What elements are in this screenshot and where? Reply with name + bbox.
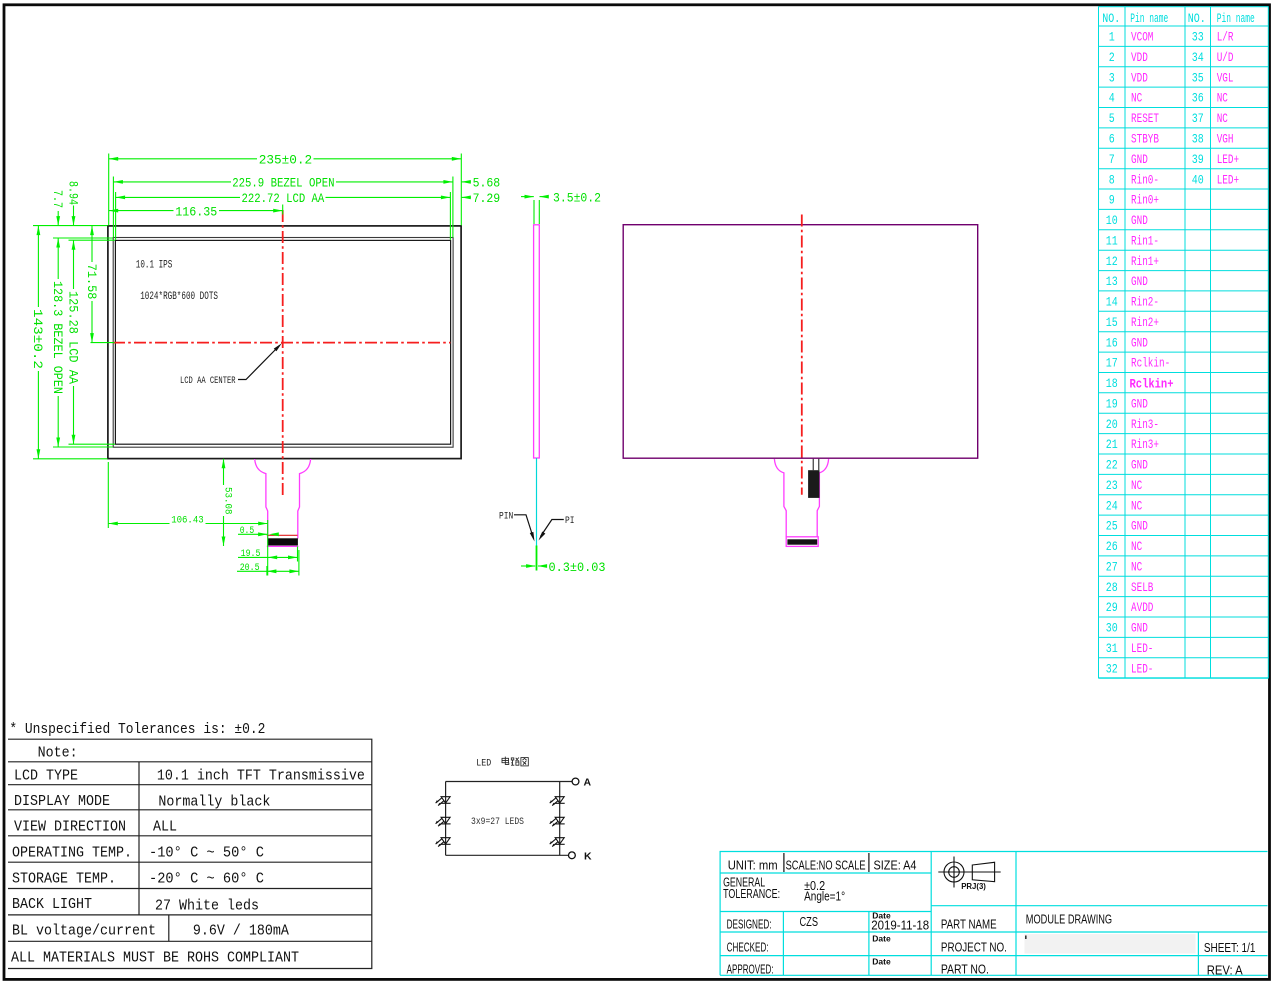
dim 19.5	[238, 556, 268, 558]
dim line 53.08	[223, 459, 225, 485]
connector stub lines	[812, 459, 814, 470]
LCD AA outline	[115, 240, 450, 444]
svg-text:NC: NC	[1131, 92, 1142, 106]
svg-text:LED: LED	[476, 758, 491, 770]
dim line 143±0.2	[37, 226, 39, 307]
svg-text:GND: GND	[1131, 336, 1148, 350]
dim line 222.72	[116, 196, 240, 198]
svg-text:4: 4	[1109, 92, 1115, 106]
CJK 图	[521, 758, 528, 766]
LED D2	[436, 817, 451, 826]
svg-text:PIN: PIN	[499, 510, 513, 522]
svg-text:2019-11-18: 2019-11-18	[871, 919, 929, 933]
svg-text:MODULE DRAWING: MODULE DRAWING	[1026, 913, 1112, 927]
svg-text:NO.: NO.	[1188, 12, 1206, 26]
LED D6	[550, 838, 565, 847]
svg-text:GND: GND	[1131, 622, 1148, 636]
connector black bar (front)	[268, 538, 298, 545]
ext lines top	[108, 154, 110, 226]
back outline	[623, 225, 978, 459]
svg-text:Rin0+: Rin0+	[1131, 194, 1159, 208]
dim 0.3±0.03	[521, 546, 547, 571]
svg-text:27: 27	[1106, 561, 1118, 575]
leader PIN	[514, 515, 533, 538]
svg-text:LED+: LED+	[1217, 153, 1239, 167]
Date small labels	[872, 911, 891, 967]
svg-text:0.5: 0.5	[240, 525, 255, 537]
svg-text:K: K	[584, 851, 592, 863]
dim line 116.35	[109, 210, 174, 212]
svg-text:37: 37	[1192, 112, 1204, 126]
svg-text:LCD TYPE: LCD TYPE	[14, 769, 78, 785]
dim line 71.58	[91, 226, 93, 262]
svg-text:NC: NC	[1217, 112, 1228, 126]
svg-text:225.9 BEZEL OPEN: 225.9 BEZEL OPEN	[232, 176, 334, 191]
svg-text:106.43: 106.43	[171, 515, 204, 527]
svg-text:PROJECT NO.: PROJECT NO.	[941, 941, 1007, 955]
LED D5	[550, 817, 565, 826]
svg-text:BL voltage/current: BL voltage/current	[12, 924, 156, 940]
svg-text:28: 28	[1106, 581, 1118, 595]
svg-text:29: 29	[1106, 601, 1118, 615]
svg-text:PI: PI	[565, 515, 575, 527]
svg-text:ALL MATERIALS MUST BE ROHS COM: ALL MATERIALS MUST BE ROHS COMPLIANT	[11, 951, 299, 967]
svg-text:3: 3	[1109, 71, 1115, 85]
svg-text:Rin2+: Rin2+	[1131, 316, 1159, 330]
svg-text:1: 1	[1109, 31, 1115, 45]
svg-text:LED-: LED-	[1131, 662, 1153, 676]
svg-text:21: 21	[1106, 438, 1118, 452]
svg-text:34: 34	[1192, 51, 1204, 65]
svg-text:22: 22	[1106, 459, 1118, 473]
svg-text:Date: Date	[872, 957, 891, 967]
back FPC tail	[774, 459, 828, 546]
svg-text:9.6V / 180mA: 9.6V / 180mA	[193, 924, 289, 940]
svg-text:26: 26	[1106, 540, 1118, 554]
dim line 7.7 + 128.3	[57, 211, 59, 226]
svg-text:31: 31	[1106, 642, 1118, 656]
svg-text:VGL: VGL	[1217, 71, 1234, 85]
svg-text:16: 16	[1106, 336, 1118, 350]
svg-text:Pin name: Pin name	[1217, 12, 1255, 26]
dim 0.5 underline+line	[238, 533, 267, 535]
CJK 电	[502, 757, 509, 765]
dim line 106.43	[108, 523, 169, 525]
svg-text:Rin1+: Rin1+	[1131, 255, 1159, 269]
dim 20.5	[237, 570, 267, 572]
svg-text:14: 14	[1106, 296, 1118, 310]
svg-text:Pin name: Pin name	[1130, 12, 1168, 26]
svg-text:30: 30	[1106, 622, 1118, 636]
wire right	[559, 782, 561, 856]
svg-text:ALL: ALL	[153, 820, 177, 836]
svg-text:116.35: 116.35	[175, 204, 217, 219]
LED D4	[550, 797, 565, 806]
svg-text:GND: GND	[1131, 153, 1148, 167]
leader LCD AA CENTER	[238, 346, 280, 380]
svg-text:128.3 BEZEL OPEN: 128.3 BEZEL OPEN	[50, 281, 65, 394]
svg-text:13: 13	[1106, 275, 1118, 289]
svg-text:19.5: 19.5	[241, 548, 261, 560]
svg-text:TOLERANCE:: TOLERANCE:	[723, 887, 780, 901]
svg-text:20: 20	[1106, 418, 1118, 432]
svg-text:LCD AA CENTER: LCD AA CENTER	[180, 375, 236, 387]
svg-text:-10° C ~ 50° C: -10° C ~ 50° C	[149, 846, 264, 862]
svg-text:VCOM: VCOM	[1131, 31, 1153, 45]
svg-text:Rin3+: Rin3+	[1131, 438, 1159, 452]
svg-text:11: 11	[1106, 234, 1118, 248]
svg-text:Rclkin+: Rclkin+	[1130, 378, 1174, 392]
svg-text:GND: GND	[1131, 214, 1148, 228]
svg-text:1024*RGB*600 DOTS: 1024*RGB*600 DOTS	[140, 291, 218, 303]
svg-text:15: 15	[1106, 316, 1118, 330]
side FPC cyan line	[536, 458, 538, 546]
svg-text:24: 24	[1106, 499, 1118, 513]
svg-text:NC: NC	[1131, 561, 1142, 575]
svg-text:Rin3-: Rin3-	[1131, 418, 1159, 432]
projection symbol	[938, 857, 1000, 888]
svg-text:39: 39	[1192, 153, 1204, 167]
svg-text:LED+: LED+	[1217, 173, 1239, 187]
svg-text:BACK LIGHT: BACK LIGHT	[12, 897, 92, 913]
svg-text:GND: GND	[1131, 275, 1148, 289]
dim 3.5±0.2	[521, 197, 547, 224]
side profile bar	[534, 225, 540, 458]
note table frame	[8, 739, 372, 968]
svg-text:PRJ(3): PRJ(3)	[961, 882, 986, 891]
svg-text:DISPLAY MODE: DISPLAY MODE	[14, 794, 110, 810]
svg-text:10.1 IPS: 10.1 IPS	[136, 260, 173, 272]
svg-text:* Unspecified Tolerances is: ±: * Unspecified Tolerances is: ±0.2	[9, 722, 265, 738]
svg-text:125.28 LCD AA: 125.28 LCD AA	[65, 291, 80, 384]
svg-text:38: 38	[1192, 133, 1204, 147]
svg-text:VDD: VDD	[1131, 51, 1148, 65]
svg-text:PART NO.: PART NO.	[941, 963, 989, 977]
svg-text:SELB: SELB	[1131, 581, 1154, 595]
FPC tail front view	[255, 459, 311, 546]
svg-text:NO.: NO.	[1102, 12, 1120, 26]
svg-text:19: 19	[1106, 397, 1118, 411]
svg-text:0.3±0.03: 0.3±0.03	[549, 560, 606, 575]
svg-text:36: 36	[1192, 92, 1204, 106]
svg-text:VIEW DIRECTION: VIEW DIRECTION	[14, 820, 126, 836]
pin table rows	[1099, 26, 1269, 678]
svg-text:AVDD: AVDD	[1131, 601, 1153, 615]
svg-text:3.5±0.2: 3.5±0.2	[553, 191, 601, 206]
svg-text:Angle=1°: Angle=1°	[804, 890, 845, 904]
dim line 225.9	[113, 181, 231, 183]
back bottom connector hatched	[787, 539, 817, 544]
wire bottom	[446, 854, 569, 856]
svg-text:Rin2-: Rin2-	[1131, 296, 1159, 310]
svg-text:222.72 LCD AA: 222.72 LCD AA	[242, 191, 325, 206]
svg-text:7.7: 7.7	[50, 190, 65, 208]
ext stubs left	[33, 225, 108, 227]
svg-text:CZS: CZS	[800, 915, 819, 929]
module outline	[108, 226, 461, 459]
svg-text:27 White leds: 27 White leds	[155, 899, 259, 915]
svg-text:VDD: VDD	[1131, 71, 1148, 85]
svg-text:L/R: L/R	[1217, 31, 1234, 45]
svg-text:7.29: 7.29	[473, 191, 501, 206]
svg-text:CHECKED:: CHECKED:	[727, 940, 769, 954]
svg-text:NC: NC	[1131, 540, 1142, 554]
svg-text:SHEET: 1/1: SHEET: 1/1	[1204, 941, 1256, 955]
title block frame	[720, 852, 1267, 976]
svg-text:23: 23	[1106, 479, 1118, 493]
svg-text:NC: NC	[1131, 479, 1142, 493]
back center line	[801, 215, 803, 495]
CJK 路	[511, 758, 519, 766]
svg-text:33: 33	[1192, 31, 1204, 45]
svg-text:18: 18	[1106, 377, 1118, 391]
svg-text:8.94: 8.94	[65, 181, 80, 205]
svg-text:GND: GND	[1131, 397, 1148, 411]
svg-text:APPROVED:: APPROVED:	[727, 962, 774, 976]
pin table row lines	[0, 0, 1, 1]
stray tick mark	[1025, 936, 1027, 940]
svg-text:U/D: U/D	[1217, 51, 1234, 65]
PROJECT NO value highlight	[1024, 934, 1195, 954]
svg-text:Date: Date	[872, 911, 891, 921]
svg-text:12: 12	[1106, 255, 1118, 269]
svg-text:Date: Date	[872, 934, 891, 944]
svg-text:143±0.2: 143±0.2	[30, 309, 45, 369]
svg-text:SCALE:NO SCALE: SCALE:NO SCALE	[786, 859, 866, 873]
wire left	[445, 782, 447, 856]
bezel open outline	[113, 238, 453, 448]
dim line 8.94 + 125.28	[73, 206, 75, 226]
LED D1	[436, 797, 451, 806]
connector stiffener red line	[267, 534, 298, 536]
pin table header	[1102, 12, 1254, 26]
terminal K	[569, 852, 576, 859]
svg-text:UNIT: mm: UNIT: mm	[728, 859, 778, 873]
svg-text:DESIGNED:: DESIGNED:	[727, 917, 772, 931]
svg-text:25: 25	[1106, 520, 1118, 534]
center line horizontal (front view)	[113, 342, 450, 344]
svg-text:235±0.2: 235±0.2	[259, 153, 313, 168]
wire top	[446, 781, 573, 783]
svg-text:STBYB: STBYB	[1131, 133, 1159, 147]
svg-text:SIZE: A4: SIZE: A4	[874, 859, 917, 873]
back small connector	[808, 470, 819, 498]
svg-text:OPERATING TEMP.: OPERATING TEMP.	[12, 846, 132, 862]
svg-text:LED-: LED-	[1131, 642, 1153, 656]
svg-text:Note:: Note:	[38, 746, 78, 762]
svg-text:GND: GND	[1131, 459, 1148, 473]
pin table frame	[1099, 7, 1269, 678]
svg-text:NC: NC	[1217, 92, 1228, 106]
svg-text:-20° C ~ 60° C: -20° C ~ 60° C	[149, 872, 264, 888]
svg-text:Rin0-: Rin0-	[1131, 173, 1159, 187]
terminal A	[572, 778, 579, 785]
svg-text:20.5: 20.5	[240, 562, 260, 574]
svg-text:10.1 inch TFT Transmissive: 10.1 inch TFT Transmissive	[157, 769, 365, 785]
svg-text:RESET: RESET	[1131, 112, 1159, 126]
svg-text:REV: A: REV: A	[1207, 963, 1244, 977]
svg-text:5.68: 5.68	[473, 175, 501, 190]
row1 black dividers	[783, 853, 785, 872]
svg-text:2: 2	[1109, 51, 1115, 65]
leader PI	[541, 520, 564, 537]
svg-text:71.58: 71.58	[84, 264, 99, 300]
dim line 235	[109, 158, 257, 160]
svg-text:17: 17	[1106, 357, 1118, 371]
svg-text:VGH: VGH	[1217, 133, 1234, 147]
svg-text:Normally black: Normally black	[158, 795, 270, 811]
svg-text:53.08: 53.08	[222, 487, 234, 515]
svg-text:PART NAME: PART NAME	[941, 917, 997, 931]
svg-text:35: 35	[1192, 71, 1204, 85]
svg-text:7: 7	[1109, 153, 1115, 167]
center line vertical (front view)	[282, 210, 284, 496]
svg-text:A: A	[584, 777, 592, 789]
svg-text:8: 8	[1109, 173, 1115, 187]
svg-text:STORAGE TEMP.: STORAGE TEMP.	[12, 872, 116, 888]
svg-text:5: 5	[1109, 112, 1115, 126]
svg-text:9: 9	[1109, 194, 1115, 208]
svg-text:10: 10	[1106, 214, 1118, 228]
svg-text:Rin1-: Rin1-	[1131, 234, 1159, 248]
svg-text:3x9=27 LEDS: 3x9=27 LEDS	[471, 816, 524, 828]
svg-text:32: 32	[1106, 662, 1118, 676]
svg-text:Rclkin-: Rclkin-	[1131, 357, 1170, 371]
svg-text:40: 40	[1192, 173, 1204, 187]
svg-text:6: 6	[1109, 133, 1115, 147]
LED D3	[436, 838, 451, 847]
svg-text:NC: NC	[1131, 499, 1142, 513]
svg-text:GND: GND	[1131, 520, 1148, 534]
